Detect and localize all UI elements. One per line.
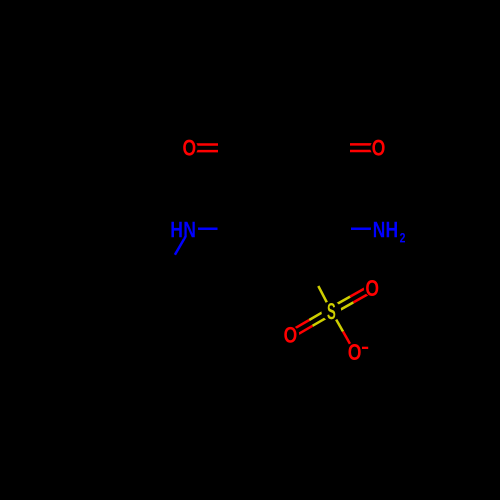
O label sulfo upper right <box>366 280 378 296</box>
O label right carbonyl <box>372 140 384 156</box>
minus charge <box>362 347 368 349</box>
N-C phenyl bond <box>175 230 190 255</box>
S label <box>327 303 335 319</box>
NH2 label <box>374 222 384 237</box>
left C=O <box>189 145 218 152</box>
S=O upper right <box>330 285 374 314</box>
S=O lower left <box>289 308 333 338</box>
HN label <box>171 222 181 237</box>
S-O(-) bond <box>331 311 354 352</box>
right C=O <box>350 144 379 151</box>
label pads <box>181 139 198 156</box>
O minus label <box>348 344 360 360</box>
N-C ring bond (left) <box>190 228 218 231</box>
C-S bond <box>318 286 331 311</box>
O label sulfo lower left <box>284 327 296 343</box>
C-NH2 bond <box>351 228 379 231</box>
O label left carbonyl <box>183 140 195 156</box>
